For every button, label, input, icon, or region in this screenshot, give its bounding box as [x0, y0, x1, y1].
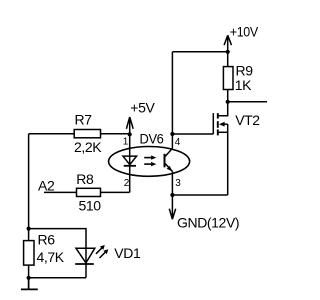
opto LED cathode bar	[124, 165, 136, 167]
svg-text:R6: R6	[38, 231, 56, 247]
diode VD1 light arrow 2	[100, 252, 107, 259]
wire pin 1 / LED anode line	[129, 134, 131, 165]
junction node pin1/R7/+5V	[128, 132, 132, 136]
wire source to pin3 node	[172, 194, 227, 196]
transistor VT2 channel top bar	[217, 113, 219, 119]
transistor VT2 drain lead	[219, 102, 228, 116]
diode VD1 triangle	[76, 248, 95, 263]
svg-text:DV6: DV6	[140, 131, 165, 147]
resistor R9	[223, 67, 233, 90]
diode VD1 vertical line	[85, 248, 87, 264]
wire R7 right to pin 1 node	[101, 133, 130, 135]
power +10V arrow	[224, 35, 231, 52]
ground GND(12V) arrow	[169, 195, 175, 219]
wire top horizontal to +10V node	[172, 51, 227, 53]
opto light arrow lower	[144, 163, 151, 165]
diode VD1 cathode bar	[75, 263, 94, 265]
svg-text:A2: A2	[38, 177, 55, 193]
svg-text:VD1: VD1	[114, 245, 141, 261]
wire R6 bottom	[28, 265, 30, 278]
svg-text:R9: R9	[236, 62, 254, 78]
svg-text:R7: R7	[75, 111, 93, 127]
transistor VT2 source lead	[219, 131, 228, 133]
wire A2 to R8	[44, 191, 77, 193]
phototransistor emitter diagonal	[165, 164, 172, 172]
svg-text:2: 2	[124, 178, 130, 189]
diode VD1 light arrow 1	[96, 247, 103, 254]
power +5V arrow	[126, 117, 133, 134]
junction node R6/VD1 bottom	[27, 276, 31, 280]
svg-text:+10V: +10V	[230, 24, 259, 40]
wire gate	[172, 133, 213, 135]
wire pin 2	[129, 166, 131, 193]
ground symbol	[21, 278, 38, 290]
junction node +10V	[226, 50, 230, 54]
opto LED triangle	[123, 156, 137, 165]
wire output right	[228, 101, 267, 103]
svg-text:510: 510	[79, 198, 102, 214]
wire VD1 top branch	[29, 229, 86, 249]
wire VD1 bottom branch	[29, 264, 86, 278]
junction node VD1 top	[27, 227, 31, 231]
phototransistor emitter arrowhead	[167, 166, 173, 172]
phototransistor base bar	[164, 154, 166, 168]
junction node source/pin3/GND	[170, 193, 174, 197]
phototransistor collector diagonal	[165, 148, 172, 156]
opto light arrow upper	[144, 157, 151, 159]
wire R9 to drain node	[227, 90, 229, 102]
transistor VT2 channel bottom bar	[217, 129, 219, 135]
wire R7 left	[29, 133, 75, 135]
resistor R8	[77, 188, 101, 196]
wire source down	[227, 124, 229, 195]
wire left rail (R7 node down to R6)	[28, 134, 30, 241]
svg-text:4: 4	[175, 137, 181, 148]
svg-text:1K: 1K	[235, 77, 252, 93]
svg-text:R8: R8	[76, 171, 94, 187]
wire pin 4 up to top corner	[171, 52, 173, 149]
wire pin 2 to R8	[101, 191, 130, 193]
wire +10V node to R9	[227, 52, 229, 67]
resistor R6	[24, 241, 34, 266]
svg-text:VT2: VT2	[235, 112, 260, 128]
junction node pin4/gate	[170, 132, 174, 136]
transistor VT2 body lead with arrow	[224, 123, 228, 125]
svg-text:3: 3	[175, 178, 181, 189]
transistor VT2 gate line	[212, 113, 214, 134]
resistor R7	[74, 130, 100, 138]
optocoupler DV6 body	[109, 147, 190, 177]
svg-text:4,7K: 4,7K	[37, 249, 65, 265]
junction node drain	[226, 100, 230, 104]
svg-text:1: 1	[123, 137, 129, 148]
wire pin 3	[171, 171, 173, 195]
svg-text:2,2K: 2,2K	[74, 139, 102, 155]
svg-text:GND(12V): GND(12V)	[177, 215, 239, 231]
transistor VT2 channel middle bar	[217, 121, 219, 128]
svg-text:+5V: +5V	[130, 99, 155, 115]
